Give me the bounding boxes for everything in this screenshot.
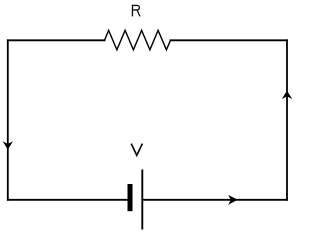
arrow: current direction, rightward on bottom wire: [229, 196, 237, 204]
label R: [132, 5, 140, 17]
wire: top, left segment from top-left corner to resistor: [8, 39, 105, 41]
wire: bottom, left segment from bottom-left corner to battery negative terminal: [8, 199, 128, 201]
wire: right side (bottom-right corner up to top-right corner): [286, 40, 288, 200]
arrow: current direction, upward on right wire: [283, 91, 291, 98]
resistor R (zigzag): [105, 30, 171, 50]
battery V: negative terminal (short thick plate): [128, 184, 133, 211]
wire: bottom, right segment from battery positive terminal to bottom-right corner: [142, 199, 287, 201]
wire: top, right segment from resistor to top-right corner: [171, 39, 288, 41]
label V: [131, 144, 142, 156]
wire: left side (top-left corner down to bottom-left corner): [7, 40, 9, 200]
arrow: current direction, downward on left wire: [4, 142, 12, 149]
battery V: positive terminal (long thin plate): [141, 170, 143, 230]
